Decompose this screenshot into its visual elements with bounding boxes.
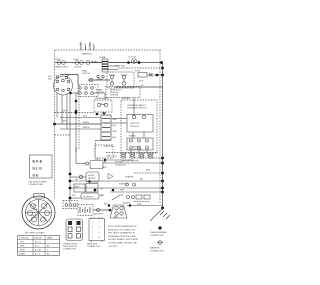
svg-text:BATTERY: BATTERY xyxy=(94,213,104,216)
svg-text:COLORS WHEN TESTING THE: COLORS WHEN TESTING THE xyxy=(108,243,137,245)
svg-text:SPARK: SPARK xyxy=(129,135,136,138)
svg-text:NOTE: WHEN VIEWING FROM: NOTE: WHEN VIEWING FROM xyxy=(108,226,137,228)
svg-text:SWITCH: SWITCH xyxy=(96,92,104,94)
svg-text:WHT: WHT xyxy=(113,131,118,133)
svg-text:SOLENOID: SOLENOID xyxy=(115,165,126,167)
svg-text:b b: b b xyxy=(33,173,39,178)
svg-text:RUN: RUN xyxy=(20,246,25,248)
svg-text:LIGHT: LIGHT xyxy=(55,59,62,61)
svg-text:IGNITION: IGNITION xyxy=(104,146,113,148)
svg-text:FUSE 40A: FUSE 40A xyxy=(115,65,125,68)
svg-text:HARNESS: HARNESS xyxy=(82,53,92,56)
svg-text:CONNECTOR: CONNECTOR xyxy=(87,246,100,248)
svg-text:RED: RED xyxy=(120,190,125,192)
svg-text:REVERSE SW: REVERSE SW xyxy=(95,98,108,100)
svg-text:WHITE: WHITE xyxy=(83,127,90,129)
svg-text:THE CAVITY NUMBERING IS: THE CAVITY NUMBERING IS xyxy=(108,232,135,235)
svg-text:W/ FUEL: W/ FUEL xyxy=(115,162,124,164)
svg-text:CIRCUITS.: CIRCUITS. xyxy=(108,246,118,248)
svg-text:RED: RED xyxy=(146,170,151,172)
svg-text:HOUR: HOUR xyxy=(88,175,94,177)
svg-text:START: START xyxy=(19,253,26,256)
svg-text:BLK: BLK xyxy=(104,204,108,206)
svg-text:OPERATOR SAFETY: OPERATOR SAFETY xyxy=(127,104,147,107)
svg-text:CHARGE: CHARGE xyxy=(125,176,134,179)
svg-text:40 AMP: 40 AMP xyxy=(99,56,107,59)
svg-text:IGNITION: IGNITION xyxy=(130,123,139,125)
svg-text:S G M: S G M xyxy=(33,217,39,219)
svg-text:CONNECTION: CONNECTION xyxy=(150,250,164,252)
svg-text:BLK: BLK xyxy=(113,125,117,127)
svg-text:PRESENCE SWITCH: PRESENCE SWITCH xyxy=(127,108,147,110)
svg-text:MAG: MAG xyxy=(107,155,112,158)
svg-text:POSITION: POSITION xyxy=(19,238,29,240)
svg-text:ORN: ORN xyxy=(62,111,67,113)
svg-text:SW: SW xyxy=(48,79,51,81)
svg-text:REVERSED FROM THE VIEW: REVERSED FROM THE VIEW xyxy=(108,236,136,238)
svg-text:RED: RED xyxy=(83,116,88,118)
svg-text:CONNECTIONS: CONNECTIONS xyxy=(29,184,44,186)
svg-text:RED: RED xyxy=(113,119,118,121)
svg-text:ENGINE: ENGINE xyxy=(122,98,130,100)
svg-text:KEY SWITCH CHART: KEY SWITCH CHART xyxy=(25,232,46,235)
svg-text:RELAY: RELAY xyxy=(109,74,116,77)
svg-text:METER: METER xyxy=(88,178,96,180)
svg-text:M + G: M + G xyxy=(35,242,41,244)
svg-text:FUSE: FUSE xyxy=(135,71,141,73)
svg-text:RELAY: RELAY xyxy=(121,74,128,77)
svg-text:CIRCUIT: CIRCUIT xyxy=(34,238,43,240)
svg-text:SHOWN. ALWAYS CHECK WIRE: SHOWN. ALWAYS CHECK WIRE xyxy=(108,238,139,241)
svg-text:b L b: b L b xyxy=(33,166,43,171)
svg-text:LIGHT: LIGHT xyxy=(73,59,80,61)
svg-text:FUEL: FUEL xyxy=(76,147,78,152)
svg-text:MODULE: MODULE xyxy=(130,126,139,128)
svg-text:SOLENOID: SOLENOID xyxy=(83,197,94,199)
svg-text:GRD: GRD xyxy=(112,137,117,139)
svg-text:AMP: AMP xyxy=(75,186,80,189)
svg-text:BLACK: BLACK xyxy=(83,121,90,124)
svg-text:B + S: B + S xyxy=(35,254,41,256)
svg-text:ENGINE GROUND: ENGINE GROUND xyxy=(122,161,140,163)
svg-text:CONNECTOR: CONNECTOR xyxy=(63,249,76,251)
svg-text:GRN: GRN xyxy=(62,121,67,123)
svg-text:SWITCH: SWITCH xyxy=(82,73,90,75)
svg-text:KEY: KEY xyxy=(33,205,38,207)
svg-text:FUEL: FUEL xyxy=(95,159,101,161)
svg-text:HARNESS: HARNESS xyxy=(150,247,160,250)
svg-text:RUN: RUN xyxy=(20,250,25,252)
svg-text:CHASSIS FRAME: CHASSIS FRAME xyxy=(150,231,167,234)
svg-text:GROUND: GROUND xyxy=(133,149,142,151)
svg-text:HEADLIGHTS: HEADLIGHTS xyxy=(55,66,68,69)
svg-text:GRN: GRN xyxy=(137,204,142,206)
svg-text:WIRE SIDE OF CONNECTOR: WIRE SIDE OF CONNECTOR xyxy=(108,229,136,231)
svg-text:SYSTEM: SYSTEM xyxy=(110,95,119,97)
svg-text:GRN: GRN xyxy=(102,167,107,169)
svg-text:BLK: BLK xyxy=(113,156,117,158)
svg-text:B + A1: B + A1 xyxy=(35,249,42,252)
svg-text:CONNECTION: CONNECTION xyxy=(150,235,164,237)
svg-text:LIGHTS: LIGHTS xyxy=(74,67,82,69)
svg-text:MAKE: MAKE xyxy=(47,237,53,240)
svg-text:40 A: 40 A xyxy=(139,80,144,83)
svg-text:CLUTCH: CLUTCH xyxy=(128,57,137,59)
svg-text:E F E: E F E xyxy=(33,159,43,164)
svg-text:BLACK: BLACK xyxy=(123,202,130,205)
